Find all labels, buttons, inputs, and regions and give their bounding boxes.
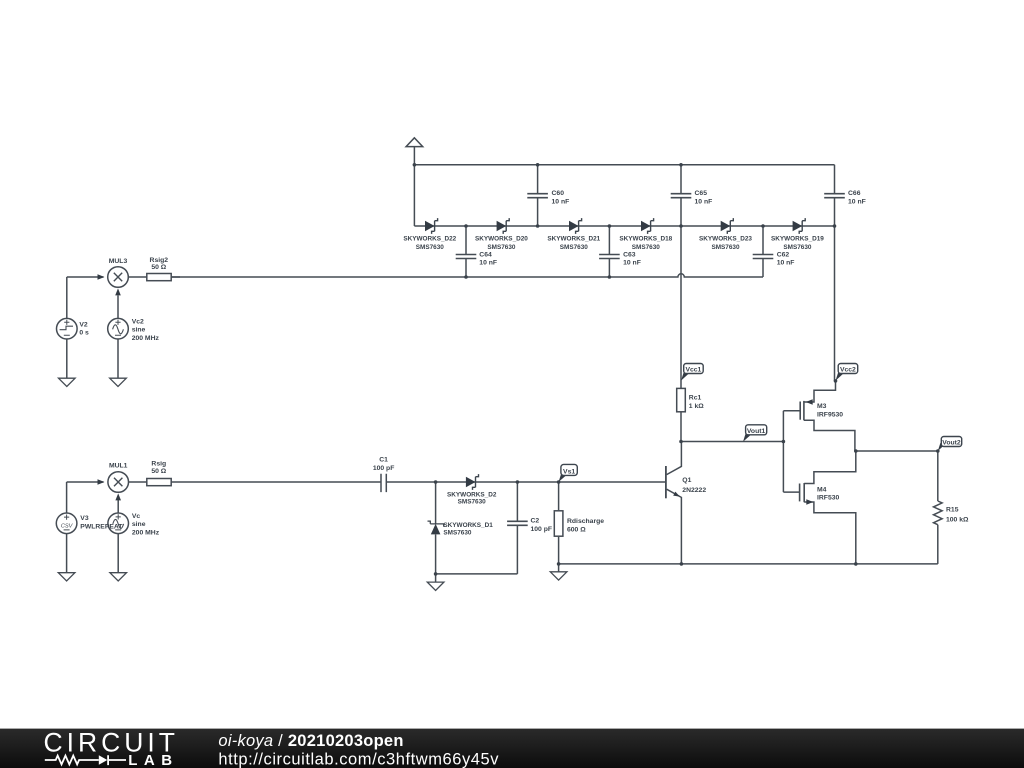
svg-text:2N2222: 2N2222 [682, 487, 706, 494]
svg-text:50 Ω: 50 Ω [151, 468, 166, 475]
svg-text:10 nF: 10 nF [479, 260, 497, 267]
svg-text:Q1: Q1 [682, 477, 691, 484]
svg-text:oi-koya / 20210203open: oi-koya / 20210203open [218, 732, 403, 750]
svg-text:Rsig2: Rsig2 [150, 257, 169, 264]
svg-text:SKYWORKS_D22: SKYWORKS_D22 [403, 236, 456, 243]
svg-text:0 s: 0 s [79, 330, 89, 337]
svg-text:MUL1: MUL1 [109, 462, 128, 469]
svg-text:Vout1: Vout1 [747, 428, 766, 435]
svg-text:Vc: Vc [132, 513, 141, 520]
svg-text:SKYWORKS_D23: SKYWORKS_D23 [699, 236, 752, 243]
svg-text:600 Ω: 600 Ω [567, 526, 586, 533]
svg-text:V3: V3 [80, 515, 89, 522]
svg-text:PWLREPEAT: PWLREPEAT [80, 523, 123, 530]
svg-text:10 nF: 10 nF [777, 260, 795, 267]
svg-text:C63: C63 [623, 251, 636, 258]
svg-text:R15: R15 [946, 507, 959, 514]
svg-text:100 pF: 100 pF [531, 526, 553, 533]
svg-text:SMS7630: SMS7630 [458, 499, 487, 506]
svg-text:Rc1: Rc1 [689, 395, 702, 402]
svg-text:C1: C1 [379, 457, 388, 464]
svg-text:Vs1: Vs1 [563, 468, 575, 475]
svg-text:SKYWORKS_D21: SKYWORKS_D21 [547, 236, 600, 243]
svg-text:SMS7630: SMS7630 [560, 244, 589, 251]
svg-text:C64: C64 [479, 251, 492, 258]
svg-text:Vcc2: Vcc2 [840, 367, 856, 374]
svg-text:50 Ω: 50 Ω [151, 264, 166, 271]
svg-text:10 nF: 10 nF [848, 199, 866, 206]
svg-text:SMS7630: SMS7630 [783, 244, 812, 251]
svg-text:LAB: LAB [128, 752, 178, 768]
svg-text:SKYWORKS_D20: SKYWORKS_D20 [475, 236, 528, 243]
svg-text:SMS7630: SMS7630 [632, 244, 661, 251]
svg-text:C65: C65 [695, 190, 708, 197]
svg-text:10 nF: 10 nF [623, 260, 641, 267]
svg-text:100 kΩ: 100 kΩ [946, 517, 969, 524]
svg-text:10 nF: 10 nF [552, 199, 570, 206]
svg-text:Vout2: Vout2 [942, 440, 961, 447]
svg-text:IRF9530: IRF9530 [817, 411, 843, 418]
svg-text:Rdischarge: Rdischarge [567, 518, 604, 525]
svg-text:C62: C62 [777, 251, 790, 258]
svg-text:IRF530: IRF530 [817, 495, 840, 502]
svg-text:C2: C2 [531, 518, 540, 525]
svg-text:Rsig: Rsig [151, 460, 166, 467]
svg-text:10 nF: 10 nF [695, 199, 713, 206]
svg-text:200 MHz: 200 MHz [132, 530, 160, 537]
svg-text:SKYWORKS_D18: SKYWORKS_D18 [619, 236, 672, 243]
svg-text:Vc2: Vc2 [132, 318, 144, 325]
svg-text:SMS7630: SMS7630 [416, 244, 445, 251]
svg-text:C60: C60 [552, 190, 565, 197]
svg-text:C66: C66 [848, 190, 861, 197]
svg-text:SMS7630: SMS7630 [443, 529, 472, 536]
svg-text:1 kΩ: 1 kΩ [689, 403, 704, 410]
svg-text:http://circuitlab.com/c3hftwm6: http://circuitlab.com/c3hftwm66y45v [218, 751, 499, 768]
svg-text:SMS7630: SMS7630 [487, 244, 516, 251]
svg-text:Vcc1: Vcc1 [685, 367, 701, 374]
svg-text:V2: V2 [79, 321, 88, 328]
svg-text:MUL3: MUL3 [109, 258, 128, 265]
svg-text:100 pF: 100 pF [373, 465, 395, 472]
svg-text:SKYWORKS_D1: SKYWORKS_D1 [443, 522, 493, 529]
svg-text:M4: M4 [817, 487, 827, 494]
svg-text:sine: sine [132, 521, 146, 528]
svg-text:200 MHz: 200 MHz [132, 335, 160, 342]
svg-text:SMS7630: SMS7630 [711, 244, 740, 251]
svg-text:sine: sine [132, 327, 146, 334]
svg-text:M3: M3 [817, 403, 827, 410]
svg-text:SKYWORKS_D19: SKYWORKS_D19 [771, 236, 824, 243]
